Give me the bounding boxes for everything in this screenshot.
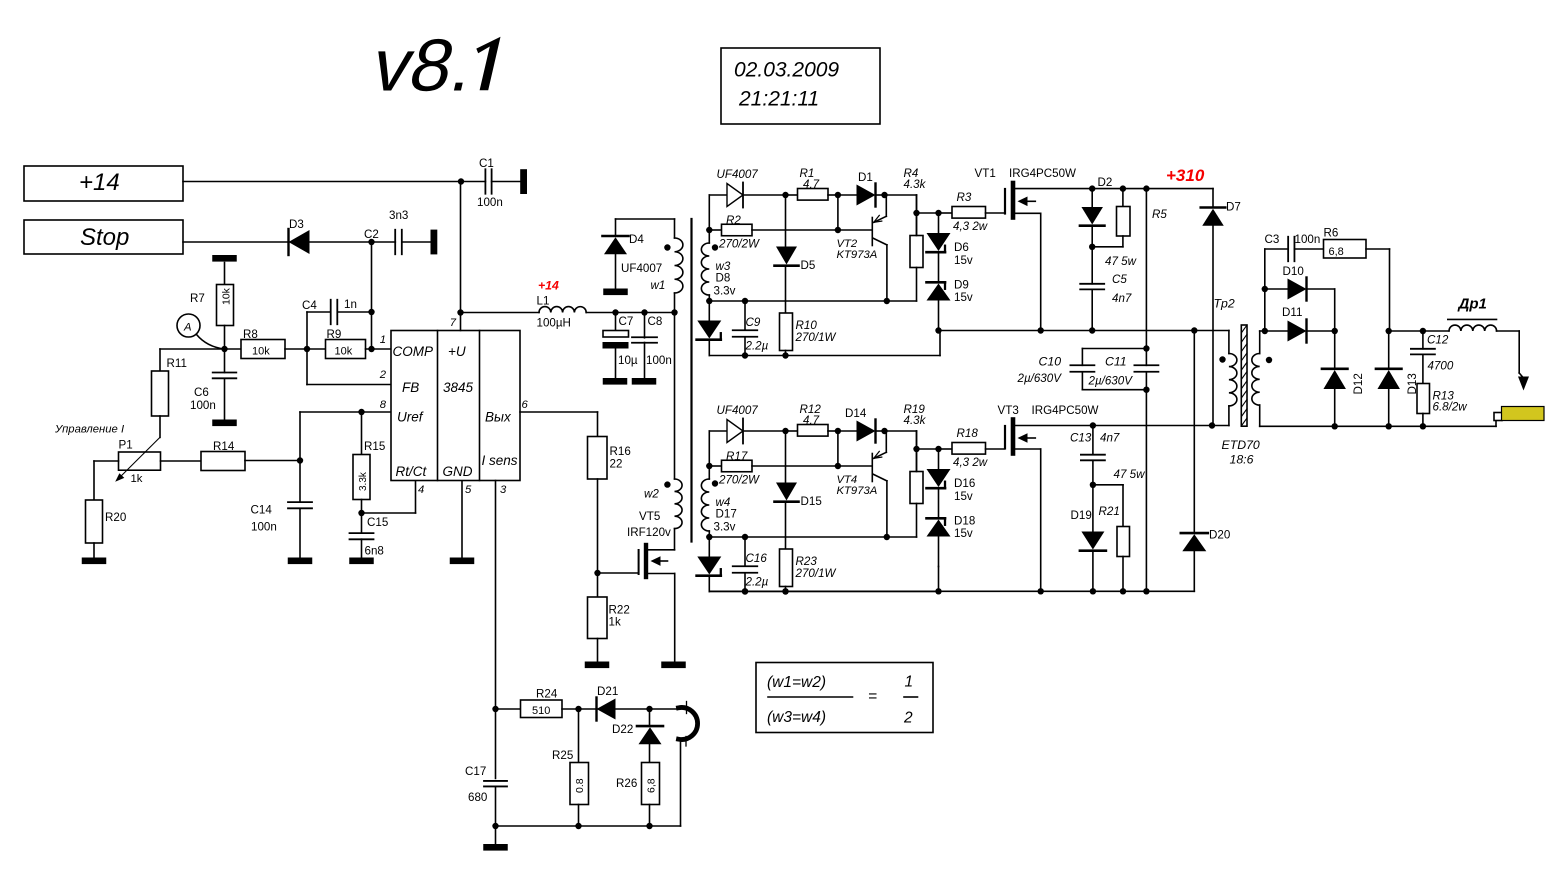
resistor R10 270/1W — [780, 313, 837, 356]
resistor R4 4.3k — [904, 167, 927, 301]
svg-text:C4: C4 — [302, 299, 317, 312]
svg-text:1n: 1n — [344, 298, 357, 311]
svg-text:C8: C8 — [648, 315, 663, 328]
svg-text:(w1=w2): (w1=w2) — [767, 674, 826, 691]
diode D19 — [1071, 485, 1106, 592]
svg-text:6.8/2w: 6.8/2w — [1433, 401, 1468, 414]
svg-text:R26: R26 — [616, 777, 637, 790]
formula box w1=w2 / w3=w4 = 1/2 — [756, 663, 933, 733]
svg-text:2.2µ: 2.2µ — [745, 340, 769, 353]
ground below C6 — [212, 420, 237, 427]
wire Rt/Ct pin4 — [362, 481, 416, 514]
node junction C5 bottom — [1089, 327, 1095, 333]
wire D3 to C2 node — [310, 241, 372, 243]
resistor R15 3.3k — [353, 412, 385, 513]
node junction zener chain top — [935, 210, 941, 216]
svg-text:R2: R2 — [726, 214, 741, 227]
label +310 red — [1166, 166, 1205, 185]
svg-text:w1: w1 — [651, 279, 666, 292]
svg-text:D2: D2 — [1098, 176, 1113, 189]
diode D12 — [1322, 331, 1365, 426]
wire base — [838, 465, 871, 467]
resistor R12 4.7 — [786, 403, 838, 436]
wire P1 left to R20 — [94, 461, 119, 500]
svg-text:680: 680 — [468, 791, 487, 804]
svg-text:D11: D11 — [1282, 306, 1302, 319]
svg-text:4700: 4700 — [1428, 360, 1454, 373]
potentiometer P1 1k — [115, 437, 160, 485]
wire +14 to C1 — [183, 181, 485, 183]
wire collector rail — [709, 536, 916, 538]
wire to current loop — [650, 708, 679, 710]
svg-text:FB: FB — [402, 380, 419, 395]
ground below C17 — [483, 826, 508, 851]
svg-text:270/2W: 270/2W — [718, 238, 760, 251]
svg-text:R20: R20 — [105, 511, 126, 524]
node junction collector — [884, 298, 890, 304]
node junction bus top — [1143, 185, 1149, 191]
svg-text:R14: R14 — [213, 440, 235, 453]
node junction D10/D12 — [1332, 328, 1338, 334]
svg-text:R9: R9 — [327, 328, 342, 341]
svg-text:4.7: 4.7 — [803, 178, 820, 191]
diode D10 — [1265, 265, 1335, 331]
diode D14 — [838, 407, 885, 443]
inductor Dr1 — [1448, 296, 1497, 332]
svg-text:IRG4PC50W: IRG4PC50W — [1009, 167, 1076, 180]
diode D22 — [612, 709, 663, 763]
resistor R11 — [152, 357, 187, 437]
svg-text:D20: D20 — [1209, 529, 1230, 542]
svg-text:6: 6 — [522, 399, 529, 411]
zener D16 15v — [927, 449, 976, 518]
wire VT3 collector rail to primary — [1015, 425, 1229, 427]
svg-text:UF4007: UF4007 — [621, 262, 662, 275]
svg-text:02.03.2009: 02.03.2009 — [734, 59, 839, 82]
wire +310 rail — [1015, 188, 1213, 190]
resistor R20 — [86, 500, 127, 558]
svg-text:D9: D9 — [954, 279, 969, 292]
svg-text:C1: C1 — [479, 157, 494, 170]
resistor R19 4.3k — [904, 403, 927, 537]
svg-text:2: 2 — [379, 369, 387, 381]
svg-text:D14: D14 — [845, 407, 867, 420]
svg-text:4n7: 4n7 — [1100, 432, 1120, 445]
node junction D19b — [1090, 588, 1096, 594]
label +14 red — [538, 279, 559, 293]
svg-text:0.8: 0.8 — [574, 778, 586, 793]
terminal after C2 — [431, 230, 438, 255]
node junction R14/C14/Uref — [297, 457, 303, 463]
svg-text:3.3v: 3.3v — [714, 285, 736, 298]
winding w2 — [644, 479, 682, 550]
svg-text:100µH: 100µH — [537, 316, 571, 329]
svg-text:6,8: 6,8 — [646, 778, 658, 793]
svg-text:15v: 15v — [954, 527, 973, 540]
svg-text:C16: C16 — [746, 552, 768, 565]
svg-text:D4: D4 — [629, 233, 644, 246]
node junction C10 loop top — [1143, 345, 1149, 351]
node junction C17 bottom — [492, 823, 498, 829]
node junction R24 branch — [492, 706, 498, 712]
node junction D10 anode — [1262, 286, 1268, 292]
node junction COMP — [368, 346, 374, 352]
node A circle — [177, 314, 225, 349]
svg-text:21:21:11: 21:21:11 — [738, 88, 819, 111]
node junction R26 bottom — [646, 823, 652, 829]
node junction VT3 emitter — [1038, 588, 1044, 594]
label Upravlenie I — [54, 424, 125, 436]
svg-text:IRG4PC50W: IRG4PC50W — [1032, 404, 1099, 417]
node junction R25 — [575, 706, 581, 712]
node junction C4 right — [368, 309, 374, 315]
svg-text:C6: C6 — [194, 386, 209, 399]
svg-text:R16: R16 — [610, 445, 631, 458]
node junction gate-R branch — [913, 431, 938, 472]
node junction C12 top — [1420, 328, 1426, 334]
node junction base wire — [835, 431, 841, 469]
svg-text:3.3v: 3.3v — [714, 521, 736, 534]
node junction w top — [706, 227, 712, 233]
svg-text:Управление I: Управление I — [54, 424, 125, 436]
diode D15 — [775, 431, 822, 549]
node junction D-emitter — [881, 192, 887, 198]
node junction C9 bottom — [742, 352, 748, 358]
ground below C8 — [632, 378, 657, 385]
node junction bus bottom — [1143, 588, 1149, 594]
node junction C16b — [742, 588, 748, 594]
op-amp U1 3845 PWM controller — [391, 331, 520, 481]
svg-text:3845: 3845 — [443, 380, 474, 395]
wire w1 node down to w2 — [674, 313, 676, 480]
svg-text:R25: R25 — [552, 749, 573, 762]
svg-text:KT973A: KT973A — [837, 485, 878, 497]
diode D2 — [1080, 176, 1112, 247]
svg-text:D17: D17 — [716, 508, 737, 521]
transistor VT4 KT973A — [837, 431, 887, 537]
svg-text:5: 5 — [465, 484, 472, 496]
svg-text:18:6: 18:6 — [1230, 453, 1254, 467]
svg-text:VT3: VT3 — [998, 404, 1019, 417]
svg-text:+310: +310 — [1166, 166, 1205, 185]
resistor R2 270/2W — [709, 214, 838, 251]
svg-text:w2: w2 — [644, 488, 659, 501]
wire pin7 +U up to +14 rail — [460, 182, 462, 331]
svg-text:2: 2 — [903, 710, 913, 727]
diode UF2 UF4007 input — [709, 404, 785, 444]
wire secondary bottom rail — [1260, 425, 1496, 427]
svg-text:10k: 10k — [252, 346, 270, 358]
svg-text:4.3k: 4.3k — [904, 178, 927, 191]
winding w4 — [701, 431, 736, 537]
wire D21 to D22 node — [616, 708, 650, 710]
capacitor C4 1n — [302, 298, 372, 349]
capacitor C1 — [477, 157, 520, 209]
resistor R1 4.7 — [786, 167, 838, 200]
wire to R4 chain — [885, 431, 917, 472]
node junction R15 top — [358, 409, 364, 415]
svg-text:D6: D6 — [954, 241, 969, 254]
pin 8 — [380, 399, 387, 411]
node junction R7/R8/C6/R11 — [221, 346, 227, 352]
wire collector rail — [709, 300, 916, 302]
capacitor C14 100n — [251, 461, 313, 558]
zener D8 3.3v — [697, 301, 722, 356]
wire midpoint rail — [939, 330, 1229, 332]
svg-text:D5: D5 — [801, 259, 816, 272]
resistor R3 4,3 2w — [939, 191, 1005, 233]
ground below C7 — [603, 378, 628, 385]
svg-text:4n7: 4n7 — [1112, 292, 1132, 305]
svg-text:6,8: 6,8 — [1329, 246, 1344, 258]
svg-text:C17: C17 — [465, 765, 486, 778]
node junction R21b — [1120, 588, 1126, 594]
node junction R-D — [835, 192, 841, 198]
node junction w bottom — [706, 298, 712, 304]
svg-text:GND: GND — [443, 464, 473, 479]
svg-text:R21: R21 — [1099, 505, 1120, 518]
svg-text:R24: R24 — [536, 688, 558, 701]
wire base — [838, 229, 871, 231]
node junction VT1 emitter — [1038, 327, 1044, 333]
svg-text:15v: 15v — [954, 490, 973, 503]
resistor R22 1k — [588, 573, 630, 662]
node junction D2/R5 bottom — [1089, 244, 1095, 250]
svg-text:D19: D19 — [1071, 509, 1092, 522]
capacitor C16 2.2u — [733, 537, 769, 592]
svg-text:R3: R3 — [957, 191, 972, 204]
svg-text:3n3: 3n3 — [389, 209, 408, 222]
diode D1 — [838, 171, 885, 207]
node junction R23b — [782, 588, 788, 594]
capacitor C9 2.2u — [733, 301, 769, 356]
label Tp2 — [1214, 297, 1235, 311]
node junction D22 — [646, 706, 652, 712]
resistor R21 — [1093, 485, 1130, 592]
svg-text:3: 3 — [500, 484, 507, 496]
svg-text:7: 7 — [450, 317, 457, 329]
pin 4 — [418, 484, 424, 496]
resistor R8 10k — [225, 328, 286, 359]
wire Uref pin8 — [300, 412, 391, 461]
svg-text:C13: C13 — [1070, 432, 1092, 445]
svg-text:100n: 100n — [1295, 233, 1321, 246]
svg-text:100n: 100n — [251, 521, 277, 534]
svg-text:R6: R6 — [1324, 227, 1339, 240]
diode D20 — [1181, 331, 1230, 592]
winding w3 — [701, 195, 735, 301]
svg-text:15v: 15v — [954, 291, 973, 304]
diode D3 — [289, 218, 310, 255]
node junction C9 bottom — [742, 588, 748, 594]
svg-text:270/2W: 270/2W — [718, 474, 760, 487]
zener D17 3.3v — [697, 537, 722, 592]
resistor R16 22 — [588, 437, 631, 572]
node junction C10 loop bottom — [1143, 387, 1149, 393]
svg-text:(w3=w4): (w3=w4) — [767, 709, 826, 726]
node junction D18b — [935, 588, 941, 594]
node junction gate VT5 — [594, 570, 600, 576]
output connector yellow — [1494, 407, 1544, 427]
pin 7 — [450, 317, 457, 329]
node junction R8/R9/C4/FB — [304, 346, 310, 352]
zener D9 15v — [927, 279, 973, 331]
pin 3 — [500, 484, 507, 496]
node junction R10 bottom — [782, 352, 788, 358]
terminal after C1 — [520, 169, 527, 194]
svg-text:C15: C15 — [367, 516, 388, 529]
svg-text:Tp2: Tp2 — [1214, 297, 1235, 311]
ground below C14 — [288, 558, 313, 565]
svg-text:R18: R18 — [957, 427, 979, 440]
node junction C8 top — [641, 309, 647, 315]
svg-text:Stop: Stop — [80, 224, 129, 251]
node junction C7 top — [612, 309, 618, 315]
wire rail to C12 — [1389, 330, 1449, 332]
svg-text:Rt/Ct: Rt/Ct — [396, 464, 428, 479]
capacitor C17 680 — [465, 765, 507, 826]
svg-text:10k: 10k — [221, 287, 233, 305]
resistor R18 4,3 2w — [939, 427, 1005, 469]
svg-text:47 5w: 47 5w — [1114, 468, 1146, 481]
node junction R25 bottom — [575, 823, 581, 829]
svg-text:4,3 2w: 4,3 2w — [953, 456, 988, 469]
node junction R10 bottom — [782, 588, 788, 594]
node +14 input box — [24, 166, 183, 201]
node junction D11 anode — [1262, 328, 1268, 334]
svg-text:Uref: Uref — [397, 410, 424, 425]
svg-text:C7: C7 — [619, 315, 634, 328]
node junction D13 bottom — [1386, 423, 1392, 429]
svg-text:=: = — [868, 688, 877, 705]
wire pin6 to R16 — [520, 412, 598, 437]
svg-text:2µ/630V: 2µ/630V — [1088, 375, 1134, 388]
svg-text:D8: D8 — [716, 272, 731, 285]
svg-text:D21: D21 — [597, 685, 618, 698]
svg-text:2.2µ: 2.2µ — [745, 576, 769, 589]
svg-text:C5: C5 — [1112, 273, 1127, 286]
svg-text:15v: 15v — [954, 254, 973, 267]
svg-text:270/1W: 270/1W — [795, 567, 837, 580]
diode UF1 UF4007 input — [709, 168, 785, 208]
svg-text:ETD70: ETD70 — [1222, 438, 1260, 452]
svg-text:D7: D7 — [1226, 201, 1241, 214]
svg-text:100n: 100n — [190, 399, 216, 412]
svg-text:4.3k: 4.3k — [904, 414, 927, 427]
resistor R9 10k — [326, 328, 366, 359]
svg-text:C11: C11 — [1105, 355, 1127, 369]
svg-text:C10: C10 — [1039, 355, 1062, 369]
wire R8-R9 — [285, 348, 326, 350]
transformer core Tp2 — [1241, 325, 1247, 426]
node junction w top — [706, 463, 712, 469]
capacitor C3 100n — [1265, 233, 1324, 261]
zener D18 15v — [927, 515, 976, 567]
svg-text:D3: D3 — [289, 218, 304, 231]
svg-text:R7: R7 — [190, 292, 205, 305]
svg-text:R11: R11 — [167, 357, 187, 370]
svg-text:270/1W: 270/1W — [795, 331, 837, 344]
svg-text:COMP: COMP — [393, 344, 434, 359]
svg-text:VT5: VT5 — [639, 510, 660, 523]
wire C8 node to w1 — [645, 312, 675, 314]
svg-text:KT973A: KT973A — [837, 249, 878, 261]
svg-text:3.3k: 3.3k — [358, 471, 369, 491]
date box — [721, 48, 880, 124]
resistor R26 6,8 — [616, 763, 660, 827]
svg-text:4.7: 4.7 — [803, 414, 820, 427]
capacitor C13 4n7 — [1070, 426, 1120, 485]
svg-text:C2: C2 — [364, 228, 379, 241]
node junction D20 top — [1191, 327, 1197, 333]
svg-text:D1: D1 — [858, 171, 873, 184]
wire R9 to COMP pin1 — [366, 348, 392, 350]
node junction R6/D13 — [1386, 328, 1392, 334]
svg-text:22: 22 — [610, 458, 623, 471]
capacitor C12 4700 — [1411, 331, 1454, 384]
node junction R5 top — [1120, 185, 1126, 191]
node junction C9 top — [742, 298, 748, 304]
pin 5 — [465, 484, 472, 496]
wire D10 branch vertical — [1264, 249, 1266, 331]
wire top driver common up to midpoint — [939, 331, 941, 356]
ground below VT5 source — [661, 662, 686, 669]
label ETD70 18:6 — [1222, 438, 1260, 467]
capacitor C10 2u/630V — [1017, 349, 1147, 390]
current loop connector — [679, 702, 698, 827]
svg-text:2µ/630V: 2µ/630V — [1017, 372, 1063, 385]
node junction R-D — [835, 428, 841, 434]
diode D21 — [597, 685, 619, 721]
resistor R13 6.8/2w — [1417, 384, 1467, 427]
resistor R14 — [161, 440, 301, 471]
wire after D11 — [1307, 330, 1335, 332]
capacitor C2 3n3 — [364, 209, 431, 254]
node junction D3/C2 — [368, 239, 374, 245]
transistor VT5 IRF120v MOSFET — [598, 510, 675, 662]
wire top of D4 to w1 — [616, 219, 675, 238]
resistor R17 270/2W — [709, 450, 838, 487]
svg-text:D18: D18 — [954, 515, 975, 528]
svg-text:A: A — [183, 322, 192, 334]
wire GND pin5 — [461, 481, 463, 558]
node junction after UF4007 — [782, 192, 788, 198]
svg-text:1k: 1k — [609, 616, 621, 629]
svg-text:47 5w: 47 5w — [1105, 255, 1137, 268]
resistor R5 47 5w — [1092, 189, 1167, 268]
node junction pin7/L1 — [457, 309, 463, 315]
svg-text:Др1: Др1 — [1457, 296, 1487, 313]
node junction D12 bottom — [1332, 423, 1338, 429]
svg-text:IRF120v: IRF120v — [627, 526, 671, 539]
svg-text:1: 1 — [905, 674, 914, 691]
node junction w1 bottom — [671, 309, 677, 315]
wire driver common — [709, 355, 940, 357]
svg-text:R8: R8 — [243, 328, 258, 341]
wire ground-stub to R7 — [212, 255, 237, 285]
transistor VT3 IRG4PC50W IGBT — [998, 404, 1099, 591]
svg-text:D15: D15 — [801, 495, 822, 508]
svg-text:10k: 10k — [335, 346, 353, 358]
wire bottom rail — [709, 590, 1194, 592]
transformer core Tp1 — [690, 219, 692, 542]
svg-text:10µ: 10µ — [618, 354, 638, 367]
svg-text:D10: D10 — [1283, 265, 1304, 278]
svg-text:8: 8 — [380, 399, 387, 411]
svg-text:510: 510 — [532, 705, 550, 717]
capacitor C15 6n8 — [350, 513, 389, 558]
wire secondary top rail left — [1260, 330, 1288, 332]
